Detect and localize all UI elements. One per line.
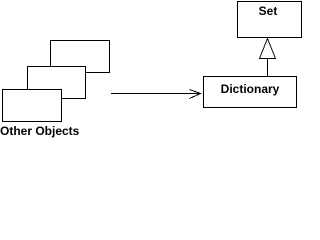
svg-text:Other Objects: Other Objects xyxy=(0,124,80,138)
rectangle front (other object 3) xyxy=(3,90,62,122)
label Set xyxy=(259,4,278,18)
label Dictionary xyxy=(221,82,280,96)
open arrowhead at Dictionary xyxy=(190,90,201,99)
wire connector Dictionary to triangle xyxy=(267,59,269,77)
generalization triangle (hollow, points up to Set) xyxy=(260,39,276,59)
svg-text:Dictionary: Dictionary xyxy=(221,82,280,96)
label Other Objects xyxy=(0,124,80,138)
class box Set xyxy=(238,2,302,38)
svg-text:Set: Set xyxy=(259,4,278,18)
rectangle middle (other object 2) xyxy=(28,67,86,99)
rectangle back (other object 1) xyxy=(51,41,110,73)
class box Dictionary xyxy=(204,77,297,108)
wire arrow shaft to Dictionary xyxy=(111,93,201,95)
